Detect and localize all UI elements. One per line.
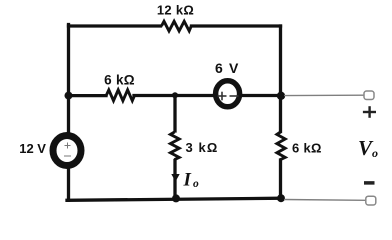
svg-text:I: I — [183, 170, 192, 191]
svg-text:6 V: 6 V — [215, 60, 240, 76]
svg-text:o: o — [372, 146, 378, 160]
svg-text:3 kΩ: 3 kΩ — [186, 140, 219, 155]
svg-text:o: o — [193, 178, 199, 190]
svg-text:6 kΩ: 6 kΩ — [104, 73, 135, 88]
svg-text:12 kΩ: 12 kΩ — [157, 3, 194, 18]
svg-text:6 kΩ: 6 kΩ — [292, 140, 322, 155]
svg-text:12 V: 12 V — [19, 141, 46, 156]
